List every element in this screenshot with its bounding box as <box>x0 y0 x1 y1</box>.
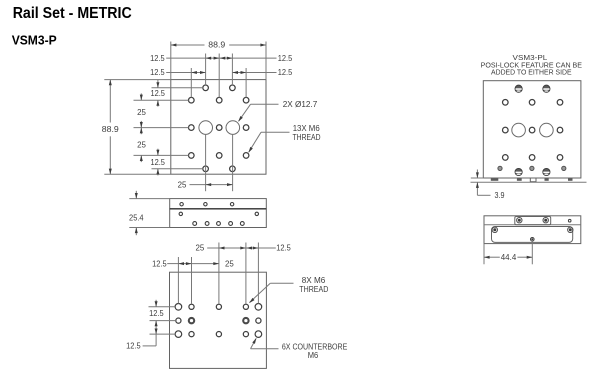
dim row2 lines and arrows <box>166 71 276 74</box>
bottom plate M6 thread holes <box>176 304 261 337</box>
title Rail Set - METRIC <box>13 5 132 22</box>
left chain dim 12.5 bottom arrows <box>156 149 159 176</box>
svg-text:2X Ø12.7: 2X Ø12.7 <box>283 99 318 109</box>
dim 25.4 extension lines <box>129 199 169 228</box>
bottom left dim 12.5 upper arrows <box>155 300 158 327</box>
dim 25 below top plate text <box>178 179 187 189</box>
svg-text:25.4: 25.4 <box>129 213 144 223</box>
leader 13X M6 line <box>248 132 289 153</box>
dim rowA text 25 <box>196 243 205 253</box>
dim 25.4 text <box>129 213 144 223</box>
bottom plate left extension lines <box>149 307 176 334</box>
svg-text:THREAD: THREAD <box>293 132 321 142</box>
dim 3.9 arrows <box>476 170 491 196</box>
side view bottom row holes <box>193 222 244 226</box>
svg-text:3.9: 3.9 <box>495 190 505 200</box>
rail bottom view joint line <box>484 224 581 226</box>
dim 25 below top plate line <box>190 183 233 186</box>
svg-text:12.5: 12.5 <box>278 67 293 77</box>
dim row1 text left <box>150 53 165 63</box>
dim 88.9 top extension lines <box>171 42 266 80</box>
label 6X counterbore M6 <box>308 350 319 360</box>
side view mid holes <box>179 212 258 215</box>
svg-text:12.5: 12.5 <box>150 157 165 167</box>
svg-text:25: 25 <box>178 179 187 189</box>
dim 3.9 extension line <box>471 177 484 179</box>
dim rowB lines and arrows <box>167 262 219 265</box>
left chain dim 12.5 bottom text <box>150 157 165 167</box>
header VSM3-PL <box>513 53 548 62</box>
posi-lock protruding feet <box>491 178 573 180</box>
svg-text:12.5: 12.5 <box>149 308 164 318</box>
header posi-lock line1 <box>481 61 583 70</box>
leader 2X dia12.7 line <box>238 104 278 122</box>
posi-lock mid small holes <box>503 127 563 133</box>
top plate 12.7 dia holes <box>199 121 240 135</box>
bottom left dim 12.5 lower arrows <box>143 327 158 346</box>
side view parting line <box>170 208 267 210</box>
label 6X COUNTERBORE <box>282 342 348 352</box>
svg-text:12.5: 12.5 <box>126 341 141 351</box>
bottom left dim 12.5 lower text <box>126 341 141 351</box>
posi-lock large holes <box>512 123 553 137</box>
dim rowA text 12.5 <box>276 243 291 253</box>
rail bottom tab screws <box>517 218 549 223</box>
posi-lock plate outline <box>483 81 581 178</box>
dim rowB extension lines <box>178 257 191 304</box>
posi-lock bottom pins <box>498 166 566 170</box>
rail bottom carriage screws <box>492 227 573 232</box>
left chain dim 12.5 top text <box>150 88 165 98</box>
dim 88.9 left extension lines <box>104 80 171 175</box>
rail bottom view outline <box>484 216 581 244</box>
dim rowA lines and arrows <box>207 247 276 250</box>
top plate outline <box>171 80 266 175</box>
rail bottom view clamp tab <box>515 217 551 225</box>
bottom plate counterbore ring holes <box>189 318 249 323</box>
leader 8X M6 line <box>249 283 293 303</box>
posi-lock row4 holes <box>503 155 563 161</box>
dim 25.4 arrows <box>135 191 138 235</box>
dim 25 below top plate extension lines <box>206 135 233 192</box>
dim 44.4 text <box>501 252 517 262</box>
svg-text:88.9: 88.9 <box>102 124 119 134</box>
dim 88.9 left text <box>102 124 119 134</box>
left chain extension lines <box>134 88 203 169</box>
posi-lock top setscrews <box>515 85 550 92</box>
left chain dim 25 upper text <box>137 107 146 117</box>
dim 44.4 line and arrows <box>484 256 532 259</box>
left chain dim 12.5 top arrows <box>156 80 159 107</box>
rail bottom small hole <box>568 219 571 222</box>
posi-lock center tab <box>530 178 536 182</box>
dim 88.9 left dimension line <box>109 80 112 175</box>
svg-text:12.5: 12.5 <box>150 53 165 63</box>
posi-lock bottom setscrews <box>515 168 550 175</box>
svg-text:25: 25 <box>137 140 146 150</box>
dim 88.9 top dimension line <box>171 44 266 47</box>
bottom plate outline <box>170 272 267 368</box>
dim row2 text right <box>278 67 293 77</box>
svg-text:THREAD: THREAD <box>299 284 328 294</box>
side view outline <box>170 199 267 228</box>
top plate M6 thread holes rows <box>189 85 249 172</box>
leader 6X counterbore line <box>251 338 279 349</box>
left chain dim 25 upper arrows <box>140 93 143 134</box>
svg-text:44.4: 44.4 <box>501 252 517 262</box>
dim row2 extension lines <box>191 68 246 98</box>
dim rowA extension lines <box>219 243 259 305</box>
label 8X M6 THREAD <box>299 284 328 294</box>
dim row2 text left <box>150 67 165 77</box>
svg-text:12.5: 12.5 <box>278 53 293 63</box>
svg-text:12.5: 12.5 <box>150 88 165 98</box>
subtitle VSM3-P <box>12 33 57 47</box>
svg-text:Rail Set - METRIC: Rail Set - METRIC <box>13 5 132 22</box>
dim rowB text 12.5 <box>152 258 167 268</box>
label 2X dia12.7 <box>283 99 318 109</box>
svg-text:88.9: 88.9 <box>208 40 225 50</box>
label 13X M6 THREAD <box>293 132 321 142</box>
dim row1 extension lines <box>206 54 233 98</box>
dim rowB text 25 <box>225 258 234 268</box>
bottom left dim 12.5 upper text <box>149 308 164 318</box>
header posi-lock line2 <box>491 68 572 77</box>
rail bottom center hole <box>531 238 535 242</box>
left chain dim 25 lower arrows <box>140 121 143 162</box>
dim row1 lines and arrows <box>166 57 276 60</box>
label 8X M6 <box>302 275 326 285</box>
svg-text:VSM3-P: VSM3-P <box>12 33 57 47</box>
svg-text:M6: M6 <box>308 350 319 360</box>
dim 3.9 text <box>495 190 505 200</box>
dim row1 text right <box>278 53 293 63</box>
posi-lock 3.9 extent line <box>471 181 587 183</box>
side view top row holes <box>180 203 234 206</box>
label 13X M6 <box>293 123 320 133</box>
svg-text:ADDED TO EITHER SIDE: ADDED TO EITHER SIDE <box>491 68 572 77</box>
svg-text:25: 25 <box>137 107 146 117</box>
dim 44.4 extension lines <box>484 241 532 264</box>
svg-text:12.5: 12.5 <box>150 67 165 77</box>
svg-text:12.5: 12.5 <box>152 258 167 268</box>
rail bottom carriage outline <box>492 227 573 243</box>
svg-text:12.5: 12.5 <box>276 243 291 253</box>
svg-text:25: 25 <box>196 243 205 253</box>
bottom plate counterbore corner holes <box>175 304 262 338</box>
posi-lock row2 holes <box>503 100 563 106</box>
left chain dim 25 lower text <box>137 140 146 150</box>
dim 88.9 top text <box>208 40 225 50</box>
svg-text:25: 25 <box>225 258 234 268</box>
